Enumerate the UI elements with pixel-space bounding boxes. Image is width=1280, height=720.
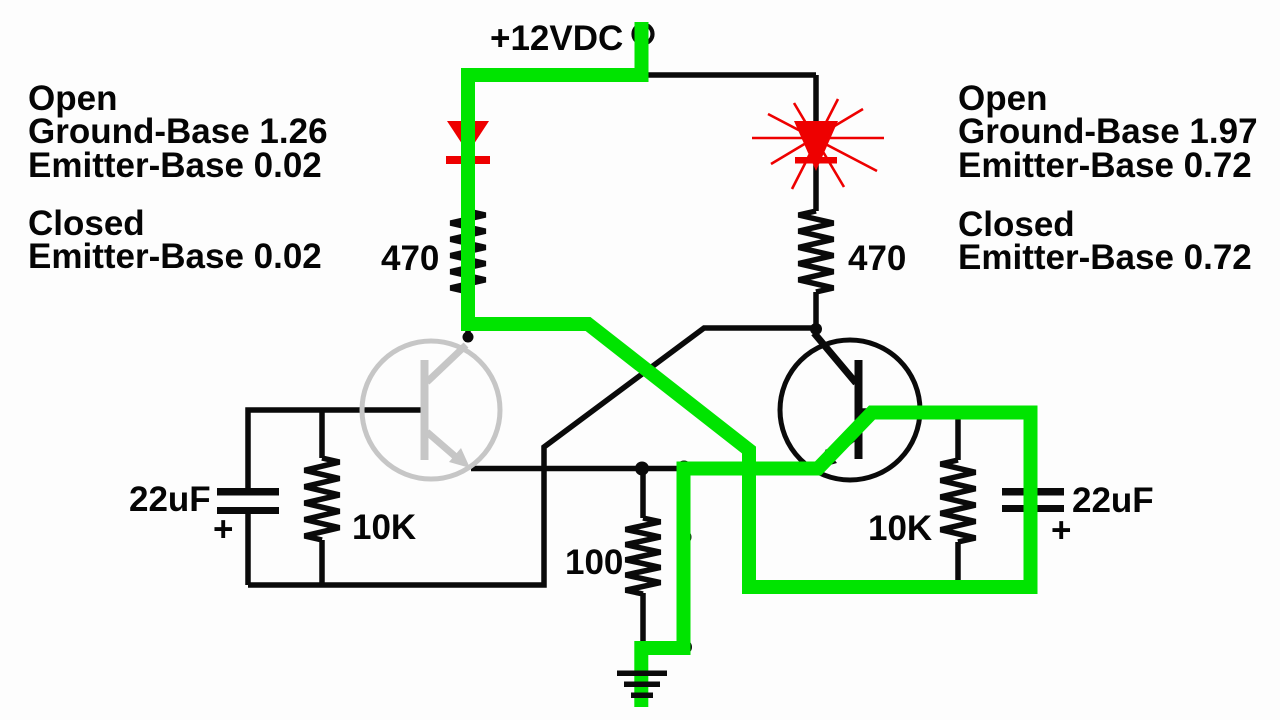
svg-text:+12VDC: +12VDC — [490, 19, 623, 58]
ground — [617, 671, 667, 699]
resistor R4 470 (right) — [799, 211, 834, 292]
node collector Q1 junction dot — [463, 332, 474, 343]
capacitor C1 22uF (left) — [217, 488, 279, 496]
wire emitter rail — [471, 466, 820, 472]
node collector Q2 junction dot — [810, 323, 822, 335]
LED D1 (left, off) — [446, 121, 490, 164]
wire left network (cap/10K top rail and base lead of Q1) — [248, 410, 421, 488]
wire left network bottom — [248, 514, 322, 585]
wire top rail from supply terminal to both branches — [468, 40, 816, 333]
LED D2 (right, lit) glow rays — [752, 99, 884, 189]
green current path highlight — [468, 22, 1031, 707]
svg-text:Emitter-Base 0.02: Emitter-Base 0.02 — [28, 146, 322, 185]
wire cross-coupling: collector of Q2 to left RC bottom — [248, 328, 816, 585]
svg-text:22uF: 22uF — [1072, 481, 1154, 520]
capacitor C2 22uF (right) — [1002, 488, 1064, 496]
node green branch mid dot — [677, 530, 692, 545]
transistor Q1 (left, cut off, greyed) — [362, 341, 500, 479]
wire right network (base lead of Q2 to 10K and C2) — [862, 411, 1030, 587]
LED D2 (right, lit) — [794, 121, 838, 171]
svg-text:10K: 10K — [352, 508, 416, 547]
svg-text:Emitter-Base 0.72: Emitter-Base 0.72 — [958, 238, 1252, 277]
svg-text:Emitter-Base 0.02: Emitter-Base 0.02 — [28, 237, 322, 276]
node green jog corner dot — [677, 640, 692, 655]
svg-text:10K: 10K — [868, 509, 932, 548]
resistor R1 470 (left) — [451, 211, 486, 292]
svg-text:+: + — [1051, 511, 1071, 550]
svg-text:470: 470 — [848, 239, 906, 278]
svg-text:22uF: 22uF — [129, 480, 211, 519]
terminal V+ — [634, 25, 653, 44]
resistor R3 100 (emitter) — [640, 468, 646, 518]
svg-text:100: 100 — [565, 543, 623, 582]
node emitter/100R junction dot — [635, 462, 649, 476]
node emitter green branch dot — [676, 461, 692, 477]
svg-text:470: 470 — [381, 239, 439, 278]
transistor Q2 (right, conducting) — [780, 333, 920, 480]
resistor R5 10K (right) — [941, 460, 976, 542]
resistor R2 10K (left) — [305, 458, 340, 540]
wire Q1 collector stub — [465, 330, 471, 342]
svg-text:+: + — [213, 510, 233, 549]
svg-text:Emitter-Base 0.72: Emitter-Base 0.72 — [958, 146, 1252, 185]
